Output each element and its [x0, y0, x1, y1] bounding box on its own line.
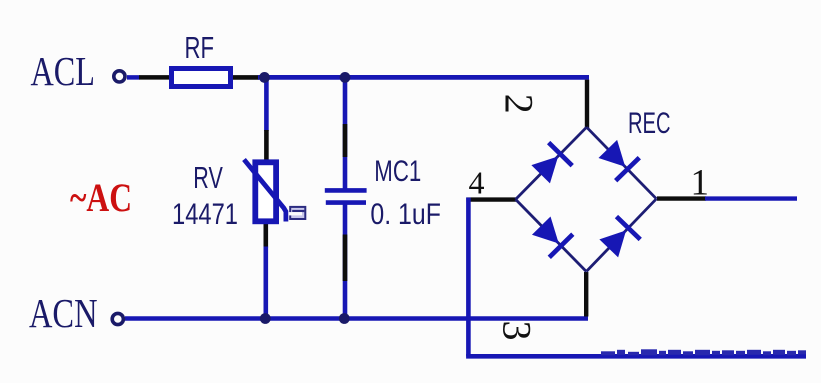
svg-text:2: 2 — [496, 94, 541, 114]
svg-text:MC1: MC1 — [374, 155, 421, 188]
svg-text:RV: RV — [193, 160, 223, 195]
svg-text:3: 3 — [495, 321, 540, 341]
svg-text:~AC: ~AC — [70, 175, 132, 220]
svg-text:4: 4 — [469, 164, 485, 200]
svg-text:REC: REC — [628, 107, 671, 140]
svg-text:0. 1uF: 0. 1uF — [370, 198, 441, 231]
svg-text:ACL: ACL — [31, 48, 96, 94]
svg-text:14471: 14471 — [172, 198, 238, 231]
svg-text:1: 1 — [691, 162, 710, 203]
svg-text:RF: RF — [185, 30, 215, 65]
svg-text:ACN: ACN — [29, 290, 98, 336]
